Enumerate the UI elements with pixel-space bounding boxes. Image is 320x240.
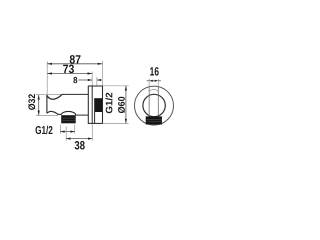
extension line 8 bbox=[96, 77, 98, 86]
dim G1/2 nut line bbox=[60, 131, 74, 133]
dim 73 line bbox=[47, 73, 92, 75]
dim D32 text bbox=[28, 94, 35, 110]
dim G1/2 nut ext right bbox=[74, 125, 76, 134]
extension line right 87 bbox=[102, 61, 104, 86]
dim G1/2 nut ext left bbox=[59, 125, 61, 134]
dim 16 arrows bbox=[147, 80, 150, 82]
dim D32 extension top bbox=[36, 94, 47, 96]
dim 38 ext left bbox=[65, 127, 67, 141]
holder strip right edge bbox=[157, 87, 159, 117]
wall plate inner face line bbox=[91, 86, 93, 123]
dim 16 ext right bbox=[157, 79, 159, 87]
dim 73 text bbox=[63, 65, 74, 74]
dim D60 text bbox=[118, 97, 125, 113]
holder top edge bbox=[62, 93, 89, 95]
front view outer circle bbox=[135, 86, 174, 125]
holder bottom S-curve bbox=[47, 111, 61, 114]
holder bottom edge bbox=[76, 114, 89, 116]
dim 8 leader bbox=[78, 79, 92, 81]
wall plate sectioned core bbox=[94, 98, 102, 112]
front nut block bbox=[146, 116, 162, 124]
dim 8 text bbox=[73, 77, 77, 83]
holder hook notch curve bbox=[47, 94, 62, 99]
extension line right 73 bbox=[91, 72, 93, 87]
dim 38 text bbox=[75, 141, 85, 150]
extension line left (87/73) bbox=[46, 61, 48, 95]
wall plate outline bbox=[88, 86, 102, 123]
dim 16 text bbox=[150, 67, 159, 76]
dim 87 line bbox=[47, 63, 102, 65]
holder top extension over notch bbox=[47, 94, 64, 96]
dim 38 line bbox=[66, 138, 92, 140]
outlet nut ellipse cap bbox=[61, 111, 76, 115]
dim 87 text bbox=[70, 55, 81, 64]
holder front face bbox=[46, 95, 48, 113]
hidden bore line below core bbox=[94, 112, 96, 123]
G1/2 nut label bbox=[36, 126, 53, 135]
dim D60 extension bottom bbox=[103, 122, 129, 124]
holder strip left edge bbox=[148, 87, 150, 117]
front view inner circle bbox=[143, 94, 165, 116]
dim D32 extension bottom bbox=[36, 115, 58, 117]
dim D60 line bbox=[125, 86, 127, 123]
dim D60 extension top bbox=[103, 85, 129, 87]
outlet nut body bbox=[61, 115, 75, 123]
dim 16 ext left bbox=[148, 79, 150, 87]
holder strip top cap bbox=[149, 89, 158, 91]
dim D32 line bbox=[38, 95, 40, 115]
dim 38 ext right bbox=[91, 124, 93, 141]
G1/2 wall thread label bbox=[105, 93, 112, 114]
